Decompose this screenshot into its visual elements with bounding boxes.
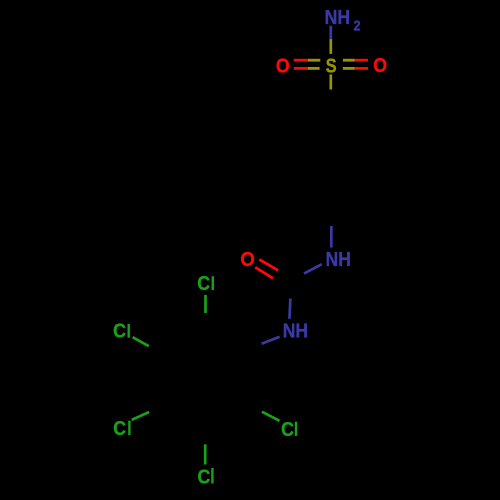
double bond S=O right, upper line : S half	[343, 59, 355, 62]
bond N(sulfonamide)-S : N half	[329, 26, 332, 39]
double bond C=O carbonyl, upper line : O half	[259, 260, 278, 271]
svg-text:2: 2	[354, 16, 361, 33]
bond S-C1(top ring) : S half stub	[329, 74, 332, 89]
bond C4-Cl(lower left) : Cl half stub	[132, 412, 150, 420]
svg-text:C: C	[281, 419, 294, 441]
double bond S=O left, upper line : S half	[308, 59, 320, 62]
atom label Cl (bottom chlorine) l bar	[211, 468, 213, 484]
svg-text:C: C	[113, 321, 126, 343]
atom label Cl (lower left chlorine) l bar	[128, 421, 130, 436]
atom label Cl (right chlorine) l bar	[295, 422, 297, 436]
svg-text:O: O	[240, 249, 254, 271]
bond C3-Cl(upper left) : Cl half stub	[133, 337, 149, 346]
double bond S=O left, upper line : O half	[294, 59, 308, 62]
svg-text:O: O	[276, 55, 290, 77]
bond C4(top ring)-N(H) urea : N half stub	[330, 226, 333, 248]
svg-text:O: O	[373, 55, 387, 77]
svg-text:S: S	[326, 54, 337, 77]
double bond S=O right, lower line : S half	[343, 67, 355, 70]
bond N(H)-C(=O) : N half	[304, 264, 322, 273]
svg-text:C: C	[197, 273, 210, 295]
svg-text:C: C	[113, 418, 126, 440]
bond N(H)-C1(pentachlorophenyl) : N half	[262, 337, 280, 344]
bond N(sulfonamide)-S : S half	[329, 39, 332, 54]
double bond S=O right, upper line : O half	[355, 59, 369, 62]
double bond S=O right, lower line : O half	[355, 67, 369, 70]
bond C6-Cl(right) : Cl half stub	[262, 412, 280, 421]
double bond C=O carbonyl, lower line : O half	[255, 267, 273, 278]
bond C(=O)-N(H) lower : N half stub	[289, 299, 290, 319]
bond C2-Cl(top) : Cl half stub	[204, 295, 207, 313]
double bond S=O left, lower line : O half	[294, 67, 308, 70]
svg-text:C: C	[198, 466, 211, 488]
svg-text:NH: NH	[325, 6, 350, 28]
atom label Cl (upper left chlorine) l bar	[127, 324, 129, 338]
bond C5-Cl(bottom) : Cl half stub	[204, 444, 207, 464]
svg-text:NH: NH	[283, 319, 308, 341]
svg-text:NH: NH	[326, 248, 351, 270]
atom label Cl (top chlorine) l bar	[212, 276, 214, 290]
double bond S=O left, lower line : S half	[308, 67, 320, 70]
